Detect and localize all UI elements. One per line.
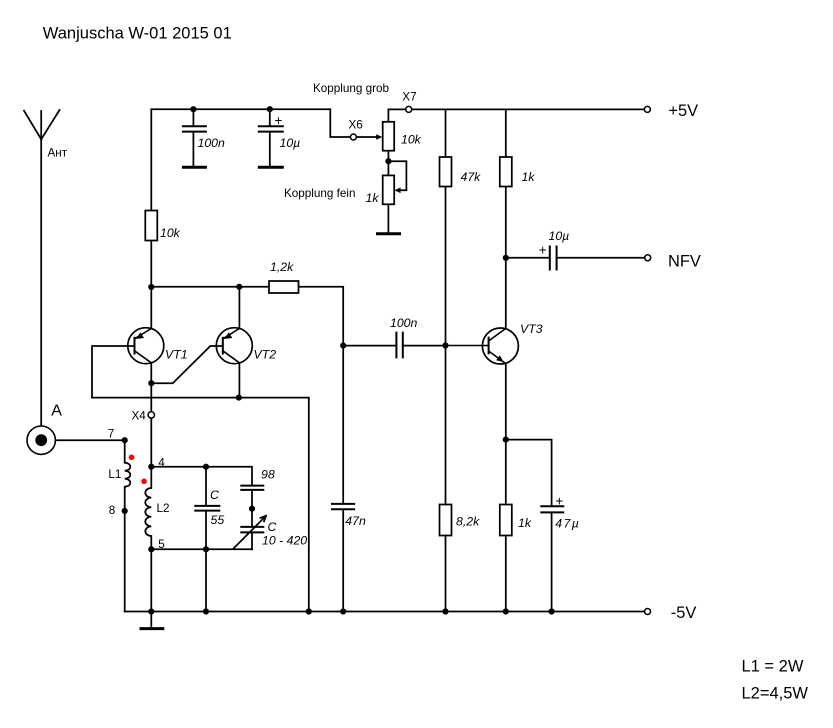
svg-text:+: + xyxy=(539,243,547,258)
svg-text:X7: X7 xyxy=(402,91,416,104)
svg-text:5: 5 xyxy=(158,538,165,551)
svg-text:47µ: 47µ xyxy=(555,516,579,530)
svg-text:Ант: Ант xyxy=(48,146,68,159)
svg-text:C: C xyxy=(210,488,219,502)
svg-text:VT1: VT1 xyxy=(165,347,188,361)
svg-text:100n: 100n xyxy=(198,136,226,150)
svg-text:10k: 10k xyxy=(160,226,181,240)
svg-text:10 - 420: 10 - 420 xyxy=(262,534,307,548)
svg-text:1,2k: 1,2k xyxy=(270,260,294,274)
svg-text:47n: 47n xyxy=(345,514,366,528)
svg-text:NFV: NFV xyxy=(668,253,701,271)
svg-text:Kopplung fein: Kopplung fein xyxy=(284,187,355,200)
svg-text:X4: X4 xyxy=(132,410,147,423)
svg-text:10µ: 10µ xyxy=(549,229,570,243)
svg-text:+: + xyxy=(555,493,563,508)
svg-text:L1 = 2W: L1 = 2W xyxy=(742,657,804,675)
svg-text:4: 4 xyxy=(158,457,165,470)
svg-text:1k: 1k xyxy=(518,516,532,530)
svg-text:1k: 1k xyxy=(522,170,536,184)
svg-text:X6: X6 xyxy=(349,118,363,131)
svg-text:L2=4,5W: L2=4,5W xyxy=(742,684,809,702)
svg-text:VT2: VT2 xyxy=(254,347,277,361)
svg-text:L1: L1 xyxy=(108,468,121,481)
svg-text:VT3: VT3 xyxy=(520,322,543,336)
svg-text:Wanjuscha W-01 2015 01: Wanjuscha W-01 2015 01 xyxy=(43,25,232,43)
svg-text:8: 8 xyxy=(109,504,116,517)
svg-text:10k: 10k xyxy=(401,132,422,146)
svg-text:10µ: 10µ xyxy=(280,136,301,150)
svg-text:A: A xyxy=(51,403,62,420)
svg-text:Kopplung grob: Kopplung grob xyxy=(313,82,390,95)
svg-text:8,2k: 8,2k xyxy=(456,514,480,528)
svg-text:C: C xyxy=(268,520,277,534)
svg-text:47k: 47k xyxy=(461,170,482,184)
svg-text:100n: 100n xyxy=(390,316,418,330)
svg-text:L2: L2 xyxy=(157,502,170,515)
svg-text:55: 55 xyxy=(211,513,225,527)
svg-text:-5V: -5V xyxy=(671,604,697,622)
svg-text:+: + xyxy=(275,113,283,128)
svg-text:1k: 1k xyxy=(366,191,380,205)
svg-text:+5V: +5V xyxy=(668,102,698,120)
svg-text:98: 98 xyxy=(261,468,275,482)
svg-text:7: 7 xyxy=(108,427,115,440)
